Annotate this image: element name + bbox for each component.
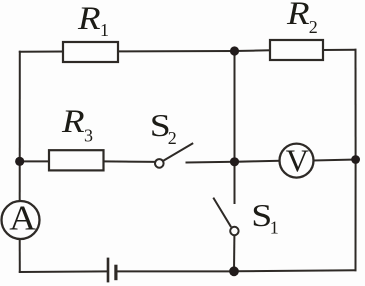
- svg-text:A: A: [9, 198, 36, 237]
- svg-text:1: 1: [100, 20, 109, 40]
- label R3: [61, 103, 93, 145]
- wire middle vertical node B to node C: [234, 51, 236, 162]
- resistor R2: [270, 40, 323, 60]
- wire left rail lower segment: [19, 239, 21, 272]
- svg-text:V: V: [286, 143, 309, 179]
- svg-text:2: 2: [309, 17, 318, 37]
- resistor R1: [63, 42, 118, 62]
- wire top rail left of R1: [20, 51, 63, 53]
- wire top rail right of R2: [323, 49, 356, 51]
- wire top rail R1 to node B: [118, 50, 235, 52]
- wire S2 to node C: [187, 161, 235, 164]
- wire bottom rail node D to right rail: [234, 270, 356, 271]
- svg-text:R: R: [61, 103, 85, 140]
- label R2: [286, 0, 318, 37]
- switch S2 pivot circle: [155, 159, 164, 168]
- label S1: [251, 197, 278, 237]
- wire middle rail node A to R3: [20, 160, 49, 162]
- svg-text:1: 1: [270, 218, 279, 238]
- label S2: [150, 107, 177, 148]
- svg-text:3: 3: [84, 126, 93, 146]
- wire right rail upper segment: [355, 50, 357, 160]
- battery short plate: [114, 266, 117, 278]
- svg-text:R: R: [77, 0, 101, 37]
- node E junction dot: [351, 155, 360, 164]
- wire left rail upper segment: [19, 52, 21, 202]
- wire R3 to switch S2: [104, 160, 156, 163]
- battery long plate: [107, 259, 110, 281]
- resistor R3: [49, 150, 104, 170]
- switch S2 blade: [164, 144, 193, 161]
- node D junction dot: [229, 266, 239, 276]
- svg-text:R: R: [286, 0, 310, 31]
- wire node C to voltmeter: [235, 161, 280, 162]
- wire switch S1 to node D: [233, 236, 235, 271]
- wire bottom rail left of battery: [20, 270, 107, 273]
- node B junction dot: [230, 46, 239, 55]
- wire bottom rail battery to node D: [117, 270, 234, 272]
- wire top rail node B to R2: [235, 49, 271, 52]
- node A junction dot: [15, 157, 24, 166]
- wire voltmeter to node E: [314, 160, 356, 161]
- switch S1 pivot circle: [230, 227, 238, 235]
- ammeter A1 circle: [2, 201, 40, 239]
- switch S1 blade: [214, 199, 231, 227]
- label R1: [77, 0, 109, 40]
- wire right rail lower segment: [355, 160, 357, 271]
- voltmeter V1 circle: [280, 144, 314, 178]
- node C junction dot: [230, 157, 239, 166]
- wire node C down to switch S1 gap: [234, 162, 236, 203]
- svg-text:2: 2: [168, 128, 177, 148]
